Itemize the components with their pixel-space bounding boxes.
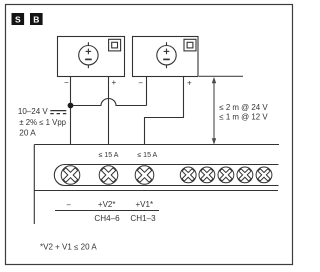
terminal T4 [178,165,198,185]
class II insulation icon PS2 [184,39,196,51]
svg-text:CH4–6: CH4–6 [94,214,120,223]
badge S [12,13,25,25]
dimension arrow [212,77,216,145]
DC source symbol PS1 [79,42,98,68]
DC symbol [50,111,66,114]
wire PS1 minus down [70,76,72,145]
terminal T2 [97,163,121,187]
device mid line [34,190,278,192]
svg-text:+V2*: +V2* [98,200,116,209]
terminal T6 [216,165,236,185]
svg-text:+V1*: +V1* [136,200,154,209]
svg-text:≤ 15 A: ≤ 15 A [137,152,157,159]
device left edge [33,145,35,225]
svg-text:+: + [111,78,116,87]
svg-text:20 A: 20 A [19,128,36,137]
wire PS2 plus down-step [145,76,184,145]
svg-text:+: + [187,78,192,87]
svg-text:CH1–3: CH1–3 [130,214,156,223]
svg-text:−: − [64,78,69,87]
svg-text:*V2 + V1 ≤ 20 A: *V2 + V1 ≤ 20 A [40,243,97,252]
power supply PS2 box [133,37,199,77]
svg-text:B: B [33,15,39,25]
svg-text:≤ 2 m @ 24 V: ≤ 2 m @ 24 V [219,103,268,112]
power supply PS1 box [58,37,125,77]
svg-text:−: − [138,78,143,87]
svg-text:10–24 V: 10–24 V [18,107,48,116]
terminal T5 [197,165,217,185]
junction dot [68,103,74,109]
class II insulation icon PS1 [109,39,121,51]
terminal T7 [235,165,255,185]
wire minus bus horizontal with bridge hump [71,99,147,106]
badge B [30,13,43,25]
terminal T8 [254,165,274,185]
svg-text:± 2% ≤ 1 Vpp: ± 2% ≤ 1 Vpp [19,118,66,127]
terminal strip [54,165,278,186]
DC source symbol PS2 [157,42,176,68]
terminal T3 [133,163,157,187]
svg-text:S: S [15,15,21,25]
dimension extension line [199,75,243,77]
wire PS1 plus down [108,76,110,145]
svg-text:−: − [66,201,71,210]
terminal T1 [59,163,83,187]
device top edge [34,144,279,146]
channel bracket line [55,210,159,212]
svg-text:≤ 1 m @ 12 V: ≤ 1 m @ 12 V [219,112,268,121]
wire PS2 minus down [146,76,148,106]
svg-text:≤ 15 A: ≤ 15 A [99,152,119,159]
